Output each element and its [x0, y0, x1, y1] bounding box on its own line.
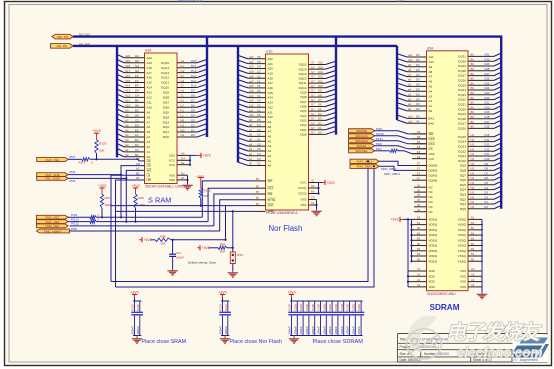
svg-text:D4: D4	[135, 89, 139, 93]
svg-text:DQM2: DQM2	[429, 169, 438, 173]
svg-text:+3V3: +3V3	[327, 181, 335, 185]
svg-text:a9: a9	[249, 118, 252, 122]
power +3V3 at R129	[96, 133, 98, 136]
capacitors C113 C114 place close Nor Flash	[222, 295, 224, 298]
svg-text:D14: D14	[191, 64, 197, 68]
svg-text:DQM0: DQM0	[429, 178, 438, 182]
svg-text:G7: G7	[311, 89, 315, 93]
svg-text:H2: H2	[181, 79, 185, 83]
svg-text:A3: A3	[471, 267, 475, 271]
svg-text:DQ13: DQ13	[458, 145, 466, 149]
svg-text:G7: G7	[311, 117, 315, 121]
svg-text:R97: R97	[105, 196, 111, 200]
svg-text:A22: A22	[268, 57, 274, 61]
svg-text:D6: D6	[191, 104, 195, 108]
svg-text:DQ0: DQ0	[300, 133, 307, 137]
svg-text:C3: C3	[135, 118, 139, 122]
svg-text:E8: E8	[417, 140, 421, 144]
svg-text:DQ13: DQ13	[161, 71, 169, 75]
power +3V3 at R94	[197, 247, 200, 249]
svg-text:D0: D0	[318, 131, 322, 135]
svg-text:B2: B2	[417, 257, 421, 261]
svg-text:A21: A21	[268, 62, 274, 66]
svg-text:A3: A3	[135, 113, 139, 117]
svg-text:D9: D9	[416, 73, 420, 77]
svg-text:B7: B7	[256, 190, 260, 194]
svg-text:D1: D1	[181, 171, 185, 175]
svg-text:VDDQ: VDDQ	[429, 218, 438, 222]
resistor R121 0ohm	[82, 158, 90, 161]
svg-text:A16: A16	[147, 76, 153, 80]
ST logo	[513, 335, 548, 362]
svg-text:DQ26: DQ26	[458, 79, 466, 83]
svg-text:FMC_NWAIT: FMC_NWAIT	[44, 229, 62, 233]
svg-text:D7: D7	[485, 171, 489, 175]
wire FMC_NE1 to R121	[68, 158, 82, 160]
svg-text:a13: a13	[249, 99, 254, 103]
svg-text:a5: a5	[249, 137, 252, 141]
svg-text:N3: N3	[471, 152, 475, 156]
port FMC_NBL0	[350, 164, 379, 168]
port SDNWE	[349, 129, 375, 133]
svg-text:B1: B1	[471, 231, 475, 235]
bus D top	[73, 35, 501, 37]
svg-text:A16: A16	[125, 74, 131, 78]
svg-text:A15: A15	[125, 79, 131, 83]
svg-text:a19: a19	[249, 70, 254, 74]
svg-text:A11: A11	[147, 100, 152, 104]
svg-text:D13: D13	[318, 70, 323, 74]
U5A VDDQ pins	[410, 216, 437, 264]
svg-text:DQM3: DQM3	[429, 164, 438, 168]
svg-text:J8: J8	[417, 188, 420, 192]
wire R121 to U3A CE pin	[90, 158, 139, 160]
svg-text:H3: H3	[135, 59, 139, 63]
svg-text:a0: a0	[408, 107, 411, 111]
svg-text:D8: D8	[485, 167, 489, 171]
svg-text:A20: A20	[147, 56, 153, 60]
svg-text:a2: a2	[408, 97, 411, 101]
svg-text:G7: G7	[311, 70, 315, 74]
svg-text:FMC_NBL1: FMC_NBL1	[357, 160, 373, 164]
svg-text:M1: M1	[181, 118, 185, 122]
svg-text:A14: A14	[268, 96, 274, 100]
svg-text:A17: A17	[125, 69, 131, 73]
svg-text:CLK: CLK	[429, 157, 435, 161]
svg-text:D6: D6	[485, 176, 489, 180]
svg-text:C100: C100	[346, 304, 350, 311]
svg-text:DQ3: DQ3	[460, 193, 467, 197]
svg-text:PD6: PD6	[71, 227, 77, 231]
resistor R97	[101, 191, 103, 194]
svg-text:BYTE: BYTE	[268, 198, 276, 202]
svg-text:DQ15: DQ15	[299, 63, 307, 67]
svg-text:D9: D9	[416, 68, 420, 72]
svg-text:a10: a10	[408, 58, 413, 62]
svg-text:A14: A14	[125, 84, 131, 88]
svg-text:a12: a12	[249, 104, 254, 108]
svg-text:B7: B7	[256, 184, 260, 188]
power +3V3 at U1D VCC	[319, 182, 323, 184]
wire SDNWE to U5A	[375, 131, 428, 134]
svg-text:B2: B2	[417, 242, 421, 246]
svg-text:D11: D11	[191, 79, 196, 83]
svg-text:C100: C100	[340, 304, 344, 311]
svg-text:G7: G7	[311, 61, 315, 65]
svg-text:B2: B2	[417, 237, 421, 241]
svg-text:DQ3: DQ3	[163, 120, 170, 124]
svg-text:C113: C113	[224, 304, 228, 311]
svg-text:+3V3: +3V3	[92, 129, 100, 133]
svg-text:H4: H4	[135, 54, 139, 58]
svg-text:G7: G7	[311, 84, 315, 88]
resistor R129	[96, 136, 98, 139]
svg-text:N3: N3	[471, 167, 475, 171]
watermark ellipse	[407, 329, 442, 359]
svg-text:DQ29: DQ29	[458, 64, 466, 68]
U3A VSS pins	[177, 174, 188, 176]
svg-text:D1: D1	[191, 128, 195, 132]
svg-text:D15: D15	[191, 59, 197, 63]
svg-text:D23: D23	[485, 91, 490, 95]
svg-text:DQ6: DQ6	[163, 105, 170, 109]
svg-text:100nF: 100nF	[351, 326, 355, 335]
svg-text:G7: G7	[311, 103, 315, 107]
capacitors C100-C112 place close SDRAM	[291, 295, 293, 298]
svg-text:VSS: VSS	[460, 269, 466, 273]
svg-text:A2: A2	[147, 145, 151, 149]
resistor R120	[200, 181, 202, 189]
bus junction dots	[116, 45, 118, 47]
svg-text:DQ25: DQ25	[458, 83, 466, 87]
svg-text:DQ18: DQ18	[458, 117, 466, 121]
power +3V3 at R98	[135, 188, 137, 191]
wire U3A LB to bottom loop	[111, 175, 145, 281]
svg-text:CE: CE	[147, 159, 151, 163]
svg-text:DQ10: DQ10	[161, 86, 169, 90]
svg-text:A1: A1	[417, 283, 421, 287]
port FMC_NE4	[36, 224, 68, 228]
svg-text:VSS: VSS	[460, 274, 466, 278]
svg-text:B1: B1	[471, 216, 475, 220]
svg-text:A18: A18	[268, 76, 274, 80]
svg-text:VDDQ: VDDQ	[429, 249, 438, 253]
svg-text:D28: D28	[485, 67, 490, 71]
svg-text:WE: WE	[268, 192, 273, 196]
svg-text:D3: D3	[485, 191, 489, 195]
svg-text:N1: N1	[181, 123, 185, 127]
svg-text:R121: R121	[79, 161, 86, 165]
svg-text:VDD: VDD	[429, 274, 436, 278]
svg-text:N2: N2	[181, 133, 185, 137]
svg-text:A4: A4	[125, 133, 129, 137]
svg-text:VDD: VDD	[429, 269, 436, 273]
svg-text:DQ0: DQ0	[460, 207, 467, 211]
svg-text:B2: B2	[417, 226, 421, 230]
svg-text:A20: A20	[125, 54, 131, 58]
svg-text:B2: B2	[417, 247, 421, 251]
svg-text:C5: C5	[257, 118, 261, 122]
svg-text:A[0..25]: A[0..25]	[57, 44, 68, 48]
wire U3A OE net down	[121, 166, 145, 218]
svg-text:100K: 100K	[138, 203, 145, 207]
wire U3A WE net down	[126, 170, 144, 221]
svg-text:VSSQ: VSSQ	[458, 254, 467, 258]
svg-text:D2: D2	[135, 143, 139, 147]
svg-text:G7: G7	[311, 107, 315, 111]
bus corner + vertical to U5A data pins	[500, 36, 502, 209]
svg-text:DQ4: DQ4	[460, 188, 467, 192]
svg-text:DQ27: DQ27	[458, 74, 466, 78]
wire R96 to net	[171, 239, 226, 241]
svg-text:C2: C2	[257, 104, 261, 108]
svg-text:A19: A19	[125, 59, 131, 63]
svg-text:DQ10: DQ10	[299, 86, 307, 90]
svg-text:D2: D2	[485, 195, 489, 199]
port SDNE1	[349, 144, 375, 148]
svg-text:A5: A5	[429, 85, 433, 89]
svg-text:D3: D3	[318, 117, 322, 121]
wire SDNRAS to U5A	[375, 141, 428, 144]
svg-text:B1: B1	[471, 221, 475, 225]
svg-text:DQ12: DQ12	[458, 149, 466, 153]
svg-text:DQ15: DQ15	[161, 61, 169, 65]
svg-text:CE2: CE2	[169, 154, 175, 158]
svg-text:N3: N3	[471, 176, 475, 180]
svg-text:A7: A7	[416, 120, 420, 124]
svg-text:D10: D10	[318, 84, 323, 88]
svg-text:DQ1: DQ1	[460, 202, 467, 206]
wire SDNCAS to U5A	[375, 136, 428, 139]
svg-text:B1: B1	[471, 226, 475, 230]
svg-text:D9: D9	[485, 162, 489, 166]
svg-text:G1: G1	[181, 59, 185, 63]
svg-text:D29: D29	[485, 62, 490, 66]
svg-text:R96: R96	[160, 235, 166, 239]
svg-text:D3: D3	[135, 123, 139, 127]
svg-text:VDDQ: VDDQ	[429, 228, 438, 232]
svg-text:DQM1: DQM1	[429, 173, 438, 177]
svg-text:A3: A3	[268, 149, 272, 153]
capacitors C115 C116 place close SRAM	[134, 295, 136, 298]
wire JP15 up to U1D BYTE pin	[233, 211, 253, 247]
resistor R94 10K	[209, 247, 219, 249]
svg-text:B1: B1	[471, 257, 475, 261]
svg-text:A3: A3	[471, 283, 475, 287]
svg-text:N3: N3	[471, 181, 475, 185]
U1D data pins DQ15-DQ0 with fan to D bus	[299, 61, 336, 137]
svg-text:CKE: CKE	[429, 152, 435, 156]
power +3V3 at U5A VDDQ	[403, 218, 412, 220]
svg-text:100nF: 100nF	[293, 326, 297, 335]
svg-text:+3V3: +3V3	[130, 290, 138, 294]
svg-text:D12: D12	[485, 147, 490, 151]
svg-text:A9: A9	[147, 110, 151, 114]
svg-text:BA0: BA0	[429, 121, 435, 125]
svg-text:a12: a12	[408, 120, 413, 124]
svg-text:a1: a1	[408, 102, 411, 106]
power +3V3 at R120	[200, 178, 202, 181]
svg-text:C5: C5	[257, 60, 261, 64]
svg-text:C4: C4	[257, 94, 261, 98]
bus vertical to U3A data pins	[206, 37, 208, 137]
svg-text:SDRAM: SDRAM	[430, 303, 460, 312]
svg-text:DQ2: DQ2	[460, 197, 467, 201]
svg-text:IS61WV102416BLL-10MLI: IS61WV102416BLL-10MLI	[145, 185, 184, 189]
svg-text:A4: A4	[429, 89, 433, 93]
svg-text:FMC_NWE: FMC_NWE	[45, 177, 60, 181]
svg-text:N3: N3	[471, 200, 475, 204]
svg-text:C1: C1	[257, 79, 261, 83]
svg-text:C4: C4	[257, 65, 261, 69]
svg-text:D14: D14	[318, 65, 323, 69]
svg-text:B9: B9	[471, 110, 475, 114]
svg-text:WE: WE	[429, 132, 434, 136]
svg-text:A8: A8	[125, 113, 129, 117]
svg-text:B1: B1	[471, 247, 475, 251]
svg-text:VCCQ: VCCQ	[298, 192, 307, 196]
svg-text:VSS: VSS	[460, 280, 466, 284]
svg-text:D13: D13	[191, 69, 197, 73]
svg-text:A3: A3	[125, 138, 129, 142]
svg-text:C6: C6	[257, 84, 261, 88]
svg-text:DQ2: DQ2	[163, 125, 170, 129]
svg-text:VSS: VSS	[169, 178, 175, 182]
svg-text:C3: C3	[257, 157, 261, 161]
svg-text:D0: D0	[191, 133, 195, 137]
svg-text:D8: D8	[191, 94, 195, 98]
bus vertical to U3A address pins	[116, 46, 118, 157]
svg-text:B9: B9	[471, 115, 475, 119]
svg-text:Place close SRAM: Place close SRAM	[142, 339, 187, 345]
svg-text:A4: A4	[147, 135, 151, 139]
svg-text:C4: C4	[257, 152, 261, 156]
svg-text:PD4: PD4	[70, 170, 76, 174]
NorFlash U1D body	[266, 54, 309, 210]
svg-text:D31: D31	[485, 53, 490, 57]
svg-text:L2: L2	[181, 104, 185, 108]
svg-text:B1: B1	[471, 237, 475, 241]
svg-text:D15: D15	[485, 133, 490, 137]
svg-text:C115: C115	[136, 304, 140, 311]
svg-text:A12: A12	[147, 96, 153, 100]
resistor R88 0ohm on FMC_NE3	[68, 221, 90, 223]
svg-text:B9: B9	[471, 57, 475, 61]
svg-text:DQ10: DQ10	[458, 159, 466, 163]
svg-text:DQ8: DQ8	[300, 95, 307, 99]
svg-text:B9: B9	[471, 125, 475, 129]
port SDNRAS	[349, 139, 375, 143]
svg-text:A20: A20	[268, 67, 274, 71]
svg-text:A1: A1	[268, 159, 272, 163]
wire FMC_NE4 row	[70, 225, 214, 227]
svg-text:A3: A3	[471, 278, 475, 282]
port FMC_NE1	[37, 157, 68, 161]
svg-text:A13: A13	[268, 101, 274, 105]
U1D VSS pins	[309, 199, 317, 201]
svg-text:A13: A13	[147, 91, 153, 95]
svg-text:A11: A11	[125, 99, 130, 103]
svg-text:a10: a10	[249, 113, 254, 117]
svg-text:100nF: 100nF	[176, 255, 184, 259]
svg-text:E8: E8	[417, 135, 421, 139]
svg-text:C6: C6	[257, 55, 261, 59]
svg-text:a14: a14	[249, 94, 254, 98]
svg-text:Project:: Project:	[400, 345, 412, 349]
svg-text:C3: C3	[257, 70, 261, 74]
svg-text:DQ31: DQ31	[458, 55, 466, 59]
ground at U3A VSS	[187, 184, 189, 186]
wire R94 to JP15	[227, 247, 233, 249]
svg-text:VCCQ: VCCQ	[298, 186, 307, 190]
svg-text:G7: G7	[311, 112, 315, 116]
svg-text:C100: C100	[357, 304, 361, 311]
svg-text:A6: A6	[181, 152, 185, 156]
wire FMC_NOE	[68, 174, 121, 176]
svg-text:D19: D19	[485, 110, 490, 114]
svg-text:CS: CS	[429, 147, 433, 151]
title block frame	[398, 333, 548, 335]
svg-text:N3: N3	[471, 143, 475, 147]
U5A VDD pins	[407, 218, 436, 289]
svg-text:D11: D11	[485, 152, 490, 156]
svg-text:D11: D11	[318, 79, 323, 83]
svg-text:D15: D15	[318, 61, 323, 65]
resistor R96 10K	[151, 239, 156, 241]
svg-text:elecfans.com: elecfans.com	[457, 345, 543, 360]
svg-text:A0: A0	[268, 164, 272, 168]
svg-text:D8: D8	[318, 93, 322, 97]
resistor R101 0ohm	[375, 150, 391, 152]
svg-text:A19: A19	[268, 71, 274, 75]
svg-text:D20: D20	[485, 105, 490, 109]
svg-text:PG12: PG12	[71, 222, 79, 226]
svg-text:R98: R98	[138, 196, 144, 200]
svg-text:B9: B9	[471, 120, 475, 124]
svg-text:B7: B7	[256, 202, 260, 206]
U5A VSSQ pins	[458, 216, 483, 264]
svg-text:B9: B9	[471, 96, 475, 100]
svg-text:A3: A3	[147, 140, 151, 144]
svg-text:D4: D4	[181, 157, 185, 161]
svg-text:FMC_NE1: FMC_NE1	[45, 158, 59, 162]
svg-text:A7: A7	[147, 120, 151, 124]
svg-text:E8: E8	[417, 155, 421, 159]
svg-text:D6: D6	[318, 103, 322, 107]
port FMC_NWE	[37, 177, 68, 181]
svg-text:F1: F1	[181, 64, 185, 68]
svg-text:10K: 10K	[203, 194, 208, 198]
svg-text:C100: C100	[322, 304, 326, 311]
svg-text:E7: E7	[417, 176, 421, 180]
svg-text:A9: A9	[429, 65, 433, 69]
ground at U5A VSS	[481, 293, 483, 295]
svg-text:D9: D9	[416, 58, 420, 62]
svg-text:D2: D2	[191, 123, 195, 127]
svg-text:DQ9: DQ9	[163, 91, 170, 95]
svg-text:DQ7: DQ7	[460, 173, 467, 177]
svg-text:100nF: 100nF	[288, 326, 292, 335]
svg-text:C100: C100	[299, 304, 303, 311]
svg-text:A1: A1	[417, 273, 421, 277]
svg-text:VDDQ: VDDQ	[429, 223, 438, 227]
svg-text:R129: R129	[99, 141, 107, 145]
svg-text:FMC_NBL0: FMC_NBL0	[357, 165, 373, 169]
wire U3A LB stub	[131, 174, 145, 176]
svg-text:+3V3: +3V3	[98, 184, 106, 188]
svg-text:A19: A19	[147, 61, 153, 65]
U5A address pins A11-A0 with fan to A bus	[397, 53, 434, 113]
